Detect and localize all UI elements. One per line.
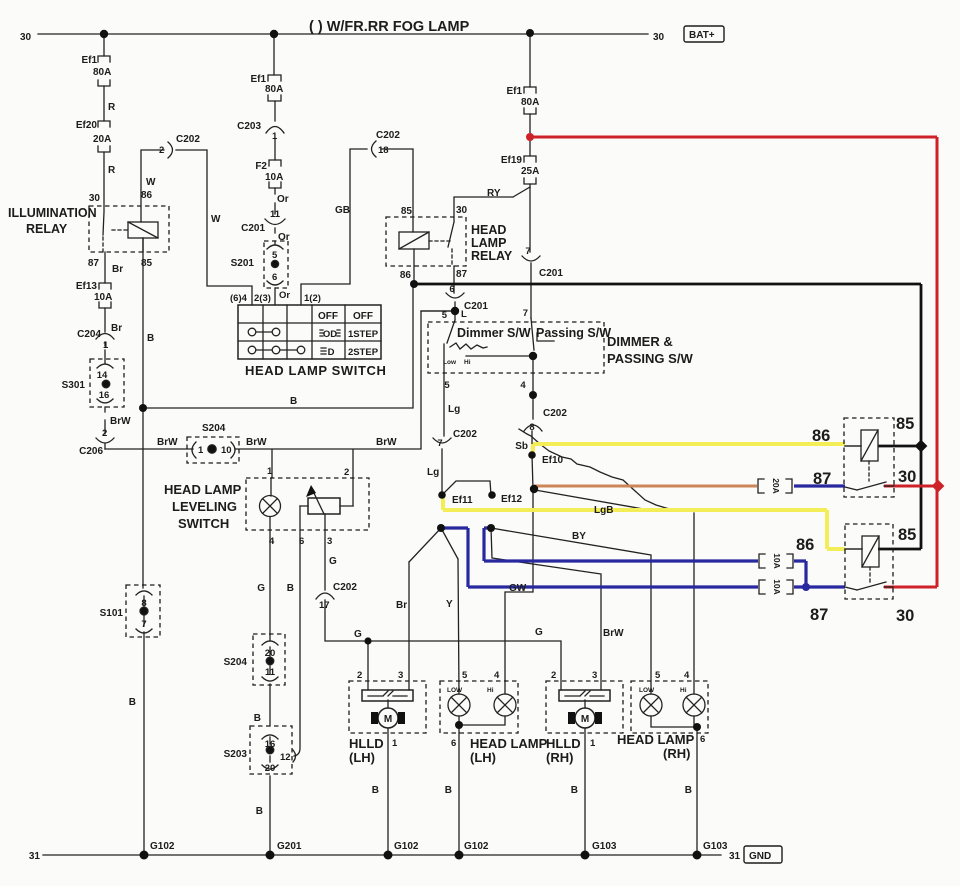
svg-text:BrW: BrW	[246, 437, 267, 448]
svg-text:BrW: BrW	[157, 437, 178, 448]
svg-text:25A: 25A	[521, 166, 539, 177]
svg-text:4: 4	[269, 536, 275, 547]
svg-text:30: 30	[20, 32, 32, 43]
svg-text:86: 86	[796, 536, 814, 554]
svg-text:G: G	[535, 627, 543, 638]
svg-text:10A: 10A	[94, 292, 112, 303]
svg-text:7: 7	[141, 619, 146, 630]
svg-text:5: 5	[655, 670, 661, 681]
svg-text:7: 7	[523, 308, 528, 319]
svg-text:16: 16	[99, 390, 110, 401]
svg-text:Dimmer S/W: Dimmer S/W	[457, 326, 531, 340]
svg-text:ILLUMINATION: ILLUMINATION	[8, 206, 97, 220]
svg-text:LEVELING: LEVELING	[172, 499, 237, 514]
svg-text:7: 7	[437, 438, 442, 449]
svg-text:G102: G102	[150, 841, 175, 852]
svg-text:BY: BY	[572, 531, 586, 542]
svg-text:Ef12: Ef12	[501, 494, 523, 505]
svg-text:LOW: LOW	[447, 687, 463, 694]
svg-text:HEAD LAMP: HEAD LAMP	[164, 482, 242, 497]
svg-text:4: 4	[494, 670, 500, 681]
svg-text:DIMMER &: DIMMER &	[607, 334, 673, 349]
svg-text:20: 20	[265, 648, 276, 659]
svg-text:GND: GND	[749, 851, 771, 862]
svg-text:HLLD: HLLD	[349, 736, 384, 751]
svg-text:B: B	[372, 785, 379, 796]
svg-text:8: 8	[141, 598, 146, 609]
svg-text:RELAY: RELAY	[26, 222, 68, 236]
svg-text:(RH): (RH)	[546, 750, 573, 765]
svg-text:10A: 10A	[772, 579, 782, 595]
svg-text:G103: G103	[592, 841, 617, 852]
svg-text:W: W	[211, 214, 221, 225]
svg-text:1: 1	[272, 131, 278, 142]
svg-text:G: G	[257, 583, 265, 594]
svg-text:Ef13: Ef13	[76, 281, 98, 292]
svg-text:Or: Or	[279, 290, 290, 301]
svg-text:80A: 80A	[93, 67, 111, 78]
svg-text:C201: C201	[241, 223, 265, 234]
svg-text:14: 14	[97, 370, 108, 381]
svg-text:31: 31	[29, 851, 41, 862]
svg-text:Hi: Hi	[487, 687, 494, 694]
svg-text:Br: Br	[112, 264, 123, 275]
svg-text:6: 6	[451, 738, 456, 749]
svg-text:HEAD LAMP SWITCH: HEAD LAMP SWITCH	[245, 363, 387, 378]
svg-text:10A: 10A	[265, 172, 283, 183]
svg-text:5: 5	[442, 310, 448, 321]
svg-text:87: 87	[813, 470, 831, 488]
svg-text:Low: Low	[443, 359, 457, 366]
svg-text:F2: F2	[255, 161, 267, 172]
svg-text:4: 4	[684, 670, 690, 681]
svg-text:B: B	[685, 785, 692, 796]
svg-text:5: 5	[462, 670, 468, 681]
svg-text:86: 86	[400, 270, 412, 281]
svg-text:1: 1	[392, 738, 398, 749]
svg-text:OFF: OFF	[318, 311, 338, 322]
svg-text:18: 18	[378, 145, 389, 156]
svg-text:G102: G102	[394, 841, 419, 852]
svg-text:4: 4	[520, 380, 526, 391]
svg-text:2: 2	[344, 467, 349, 478]
svg-text:PASSING S/W: PASSING S/W	[607, 351, 693, 366]
svg-text:OD: OD	[323, 329, 337, 340]
svg-text:5: 5	[272, 250, 278, 261]
svg-text:2: 2	[357, 670, 362, 681]
svg-text:Lg: Lg	[448, 404, 460, 415]
svg-text:11: 11	[265, 667, 276, 678]
svg-text:Ef10: Ef10	[542, 455, 564, 466]
svg-text:C203: C203	[237, 121, 261, 132]
svg-text:20: 20	[265, 763, 276, 774]
svg-text:6: 6	[299, 536, 304, 547]
svg-text:1: 1	[267, 466, 273, 477]
svg-text:S204: S204	[202, 423, 226, 434]
svg-text:1(2): 1(2)	[304, 293, 321, 304]
svg-text:G102: G102	[464, 841, 489, 852]
svg-text:86: 86	[812, 427, 830, 445]
svg-text:M: M	[384, 714, 392, 725]
svg-text:Ef1: Ef1	[506, 86, 522, 97]
svg-text:80A: 80A	[521, 97, 539, 108]
svg-text:1: 1	[103, 340, 109, 351]
svg-text:( ) W/FR.RR FOG LAMP: ( ) W/FR.RR FOG LAMP	[309, 19, 470, 35]
svg-text:(LH): (LH)	[349, 750, 375, 765]
svg-text:Or: Or	[277, 194, 289, 205]
svg-text:C202: C202	[376, 130, 400, 141]
svg-text:Hi: Hi	[464, 359, 471, 366]
svg-text:10: 10	[221, 445, 232, 456]
svg-text:RY: RY	[487, 188, 501, 199]
svg-text:8: 8	[529, 422, 534, 433]
svg-text:30: 30	[456, 205, 468, 216]
svg-text:HEAD: HEAD	[471, 223, 506, 237]
svg-text:Ef20: Ef20	[76, 120, 98, 131]
svg-text:80A: 80A	[265, 84, 283, 95]
svg-text:87: 87	[810, 606, 828, 624]
svg-text:6: 6	[272, 272, 277, 283]
svg-text:GW: GW	[509, 583, 527, 594]
svg-text:R: R	[108, 102, 116, 113]
svg-text:B: B	[129, 697, 136, 708]
svg-text:G103: G103	[703, 841, 728, 852]
svg-text:HLLD: HLLD	[546, 736, 581, 751]
svg-text:C201: C201	[464, 301, 488, 312]
svg-text:BrW: BrW	[376, 437, 397, 448]
svg-text:W: W	[146, 177, 156, 188]
svg-text:BrW: BrW	[603, 628, 624, 639]
svg-text:Lg: Lg	[427, 467, 439, 478]
svg-text:G201: G201	[277, 841, 302, 852]
svg-text:7: 7	[525, 246, 530, 257]
svg-text:6: 6	[700, 734, 705, 745]
svg-text:85: 85	[141, 258, 153, 269]
svg-text:2: 2	[102, 428, 107, 439]
svg-text:B: B	[290, 396, 297, 407]
svg-text:Y: Y	[446, 599, 453, 610]
svg-text:16: 16	[265, 739, 276, 750]
svg-text:Ef19: Ef19	[501, 155, 523, 166]
svg-text:31: 31	[729, 851, 741, 862]
svg-text:(6)4: (6)4	[230, 293, 248, 304]
svg-text:Br: Br	[396, 600, 407, 611]
svg-text:20A: 20A	[93, 134, 111, 145]
svg-text:30: 30	[896, 607, 914, 625]
svg-text:1: 1	[590, 738, 596, 749]
svg-text:B: B	[147, 333, 154, 344]
svg-text:85: 85	[898, 526, 916, 544]
svg-text:OFF: OFF	[353, 311, 373, 322]
svg-text:10A: 10A	[772, 553, 782, 569]
svg-text:Passing S/W: Passing S/W	[536, 326, 611, 340]
svg-text:C202: C202	[333, 582, 357, 593]
svg-text:2: 2	[551, 670, 556, 681]
svg-text:Hi: Hi	[680, 687, 687, 694]
svg-text:2STEP: 2STEP	[348, 347, 379, 358]
svg-text:B: B	[571, 785, 578, 796]
svg-text:Ef11: Ef11	[452, 495, 473, 506]
svg-text:86: 86	[141, 190, 153, 201]
svg-text:1: 1	[198, 445, 204, 456]
svg-text:S201: S201	[231, 258, 255, 269]
svg-text:30: 30	[89, 193, 101, 204]
svg-text:3: 3	[592, 670, 597, 681]
svg-text:L: L	[461, 309, 467, 320]
svg-text:12: 12	[280, 752, 291, 763]
svg-text:R: R	[108, 165, 116, 176]
svg-text:2(3): 2(3)	[254, 293, 271, 304]
svg-text:1STEP: 1STEP	[348, 329, 379, 340]
svg-text:3: 3	[398, 670, 403, 681]
svg-text:BrW: BrW	[110, 416, 131, 427]
svg-text:(LH): (LH)	[470, 750, 496, 765]
svg-text:30: 30	[653, 32, 665, 43]
svg-text:RELAY: RELAY	[471, 249, 513, 263]
svg-text:HEAD LAMP: HEAD LAMP	[617, 732, 695, 747]
svg-text:S101: S101	[100, 608, 124, 619]
svg-text:BAT+: BAT+	[689, 30, 715, 41]
svg-text:87: 87	[88, 258, 100, 269]
svg-text:Or: Or	[278, 232, 290, 243]
svg-text:87: 87	[456, 269, 468, 280]
svg-text:11: 11	[270, 209, 281, 220]
svg-text:G: G	[329, 556, 337, 567]
svg-text:M: M	[581, 714, 589, 725]
svg-text:C202: C202	[543, 408, 567, 419]
svg-text:17: 17	[319, 600, 330, 611]
svg-text:Sb: Sb	[515, 441, 528, 452]
svg-text:B: B	[256, 806, 263, 817]
svg-text:GB: GB	[335, 205, 350, 216]
svg-text:S204: S204	[224, 657, 248, 668]
svg-text:(RH): (RH)	[663, 746, 690, 761]
svg-text:B: B	[254, 713, 261, 724]
svg-text:C206: C206	[79, 446, 103, 457]
svg-text:S301: S301	[62, 380, 86, 391]
svg-text:3: 3	[327, 536, 332, 547]
svg-text:30: 30	[898, 468, 916, 486]
svg-text:20A: 20A	[771, 478, 781, 494]
svg-text:6: 6	[449, 284, 454, 295]
svg-text:C204: C204	[77, 329, 101, 340]
svg-text:C201: C201	[539, 268, 563, 279]
svg-text:85: 85	[896, 415, 914, 433]
svg-text:85: 85	[401, 206, 413, 217]
svg-text:LgB: LgB	[594, 505, 613, 516]
svg-text:2: 2	[159, 145, 164, 156]
svg-text:C202: C202	[176, 134, 200, 145]
svg-text:G: G	[354, 629, 362, 640]
svg-text:LAMP: LAMP	[471, 236, 506, 250]
svg-text:HEAD LAMP: HEAD LAMP	[470, 736, 548, 751]
svg-text:B: B	[445, 785, 452, 796]
svg-text:C202: C202	[453, 429, 477, 440]
svg-text:SWITCH: SWITCH	[178, 516, 229, 531]
svg-text:S203: S203	[224, 749, 248, 760]
svg-text:B: B	[287, 583, 294, 594]
svg-text:Ef1: Ef1	[81, 55, 97, 66]
svg-text:LOW: LOW	[639, 687, 655, 694]
svg-text:5: 5	[444, 380, 450, 391]
svg-text:D: D	[328, 347, 335, 358]
svg-text:Br: Br	[111, 323, 122, 334]
